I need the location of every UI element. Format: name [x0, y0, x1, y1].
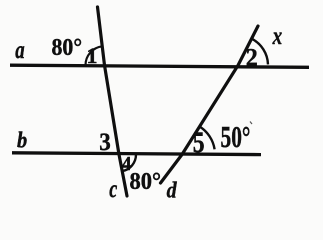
transversal c through angles 1 3 4	[98, 7, 128, 196]
svg-text:50°: 50°	[221, 119, 251, 154]
svg-text:c: c	[109, 176, 117, 203]
angle 2 arc	[252, 39, 268, 65]
angle 4 arc	[122, 155, 136, 172]
angle 5 arc	[200, 127, 215, 150]
svg-text:2: 2	[246, 42, 258, 71]
scan speck	[250, 122, 252, 125]
svg-text:a: a	[15, 37, 24, 64]
svg-text:5: 5	[193, 126, 205, 159]
svg-text:80°: 80°	[130, 169, 162, 195]
svg-text:3: 3	[99, 127, 111, 156]
angle 1 arc	[85, 46, 102, 65]
svg-text:80°: 80°	[52, 35, 83, 61]
line b	[12, 153, 261, 155]
svg-text:b: b	[17, 128, 27, 153]
line a	[10, 65, 309, 67]
svg-text:x: x	[272, 23, 282, 50]
transversal d through angles 2 5	[161, 26, 259, 183]
svg-text:1: 1	[87, 43, 98, 68]
svg-text:d: d	[167, 177, 178, 203]
